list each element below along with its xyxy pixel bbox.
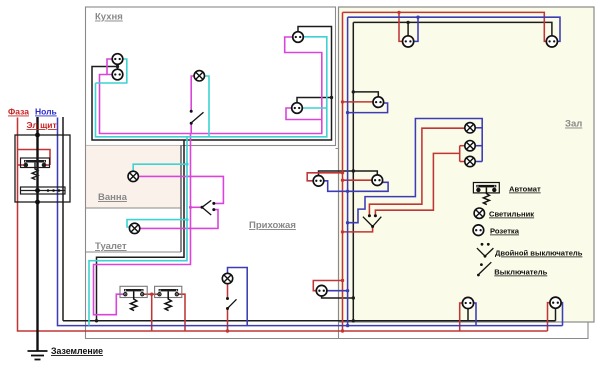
svg-text:Туалет: Туалет [95, 241, 127, 252]
wall zal left lower segment [338, 322, 340, 339]
svg-text:Эл щит: Эл щит [27, 120, 57, 130]
wire kitchen switch out [190, 124, 192, 133]
socket S5 [462, 297, 473, 308]
wire socket D red [343, 179, 373, 181]
wire P1-D blue link [324, 181, 389, 192]
junction red A [397, 11, 400, 14]
wire socket S5 blue [474, 303, 476, 326]
wire DS2 vertex return [343, 228, 373, 232]
legend breaker symbol [473, 183, 499, 205]
wire socket S6 red [548, 303, 550, 331]
junction corridor black bus [95, 319, 98, 322]
svg-text:Кухня: Кухня [95, 12, 123, 23]
junction red D [341, 179, 344, 182]
terminal dots [35, 188, 40, 193]
wire P3 stem [322, 296, 354, 298]
wall corridor (bath/toilet right) [180, 146, 182, 253]
wire socket S5 red [460, 303, 463, 331]
junction socket A stem [406, 21, 409, 24]
breaker AB1 [21, 158, 50, 180]
svg-text:Светильник: Светильник [489, 210, 534, 219]
wire DS1 vertex stub [191, 206, 201, 208]
wire panel loop top [18, 150, 51, 166]
wire socket S6 blue [561, 303, 562, 326]
wire breaker AB2 drop [151, 294, 153, 331]
socket P1 [313, 176, 324, 187]
legend lamp symbol [474, 208, 484, 218]
wire zal red riser [342, 12, 344, 331]
junction blue C [346, 111, 349, 114]
svg-text:Ванна: Ванна [98, 192, 128, 203]
wire socket S5 stem [467, 309, 469, 321]
junction red C [341, 100, 344, 103]
junction red breakers [150, 293, 153, 296]
wire socket A red [399, 12, 402, 41]
socket S6 [550, 297, 561, 308]
socket D [372, 175, 383, 186]
panel Эл щит box [15, 135, 70, 202]
wire panel breaker right stub [44, 164, 50, 166]
junction P3 black [352, 296, 355, 299]
lamp Z2 [465, 141, 475, 151]
socket C [373, 97, 384, 108]
ground [28, 351, 48, 360]
wire DS2 left pole to lamp1 [369, 128, 464, 214]
legend socket symbol [473, 225, 484, 236]
double switch DS1 [201, 200, 216, 215]
switch kitchen [190, 110, 204, 125]
wire socket C black [353, 92, 378, 97]
junction blue lamps [346, 221, 349, 224]
wire socket A stem [407, 22, 409, 35]
wire panel feed down [62, 117, 64, 321]
wire kitchen K1 elbow [96, 59, 127, 83]
junction blue P1D [346, 190, 349, 193]
wire zal blue riser [347, 17, 349, 325]
wire hall P1 to zal socket D [319, 171, 378, 176]
wire zal top bus [353, 22, 552, 35]
wire socket C blue [348, 103, 388, 113]
wire socket R2 cyan [302, 107, 327, 109]
wire corridor cyan riser [89, 137, 187, 326]
WIRES-RED [18, 12, 550, 331]
wire lamp3 stub [475, 161, 482, 163]
junction blue riser bus [346, 324, 349, 327]
wire corridor magenta riser [94, 134, 191, 315]
wire DS2 right pole to lamps23 [375, 153, 459, 214]
wire kitchen loop [92, 27, 332, 141]
panel main line [36, 117, 38, 351]
WIRES-MAGENTA [94, 37, 322, 315]
wire socket C red [343, 101, 374, 103]
svg-text:Двойной выключатель: Двойной выключатель [495, 249, 583, 258]
junction P1-D black [352, 169, 355, 172]
wire socket R2 magenta [286, 108, 322, 120]
lamp Z1 [465, 123, 475, 133]
wire phase riser [18, 118, 548, 332]
wire panel breaker left stub [18, 164, 27, 166]
socket A [403, 36, 414, 47]
socket R1 [293, 32, 304, 43]
wire kitchen K sockets bar [107, 59, 112, 75]
wire hall switch drop [227, 310, 229, 331]
junction R2 riser [330, 96, 333, 99]
junction magenta DS1 [189, 206, 192, 209]
wall Туалет bottom [86, 251, 182, 253]
room Зал fill [339, 7, 595, 322]
wire kitchen socket R2 stem [297, 98, 332, 103]
wire zal red top bus [343, 12, 547, 41]
junction panel top [35, 133, 40, 138]
legend double switch symbol [477, 243, 494, 258]
junction blue P3 [346, 289, 349, 292]
svg-text:Фаза: Фаза [8, 107, 29, 117]
wire breakers link [144, 293, 158, 295]
wire P1 loop [307, 173, 342, 181]
lamp Z3 [465, 156, 475, 166]
breaker AB3 [155, 286, 182, 310]
room Кухня [86, 7, 336, 146]
junction cyan toilet [185, 218, 188, 221]
wire socket A blue [414, 17, 418, 41]
wire socket S6 stem [555, 308, 557, 320]
svg-text:Заземление: Заземление [51, 346, 103, 356]
wire P3 blue [327, 290, 348, 292]
junction blue A [416, 16, 419, 19]
junction zal black riser bus [352, 319, 355, 322]
junction red hall switch bus [226, 329, 229, 332]
socket B [546, 36, 557, 47]
room Ванна fill [86, 146, 181, 209]
wire P3 loop [313, 281, 342, 291]
lamp hall [222, 273, 232, 283]
wire toilet lamp cyan [127, 220, 187, 227]
wire kitchen cyan loop [96, 37, 327, 137]
wall stub kitchen to hall [336, 148, 339, 150]
wire zal lamps neutral [348, 119, 483, 223]
wire toilet lamp magenta [140, 210, 218, 229]
svg-text:Ноль: Ноль [35, 107, 57, 117]
wire hall lamp blue [228, 268, 248, 326]
wall left outer [86, 146, 589, 339]
socket K1 [112, 54, 123, 65]
legend switch symbol [477, 262, 491, 276]
WIRES-CYAN [89, 37, 327, 326]
switch hall [226, 297, 237, 310]
wire bracket stub lamp2 [460, 145, 465, 147]
terminal strip [21, 187, 66, 194]
svg-text:Прихожая: Прихожая [249, 220, 296, 231]
wire bath lamp cyan [133, 164, 187, 171]
lamp bath [128, 171, 138, 181]
lamp toilet [129, 223, 139, 233]
WIRES-BLACK [63, 22, 556, 320]
junction cyan bath [185, 163, 188, 166]
junction K pair [116, 65, 119, 68]
wire bracket stub lamp3 [460, 161, 465, 163]
wire lamp1 stub [475, 127, 482, 129]
socket K2 [112, 69, 123, 80]
wire black bus bottom [63, 320, 556, 322]
wire lamp23 bracket [459, 146, 461, 162]
breaker AB2 [120, 286, 147, 310]
wire neutral riser [58, 118, 563, 326]
WIRES-BLUE [58, 17, 563, 325]
junction socket C black [352, 90, 355, 93]
svg-text:Автомат: Автомат [509, 185, 541, 194]
wire zal black riser [352, 22, 354, 320]
junction panel bottom [35, 200, 40, 205]
svg-text:Выключатель: Выключатель [494, 268, 547, 277]
svg-text:Зал: Зал [565, 119, 582, 130]
wire lamp2 stub [475, 145, 482, 147]
junction red DS2 [341, 230, 344, 233]
junction red P1 [341, 171, 344, 174]
wire zal blue top bus [348, 17, 560, 41]
socket R2 [292, 103, 303, 114]
wire kitchen lamp feed [191, 76, 194, 110]
wire bath lamp magenta [138, 176, 223, 203]
wire hall lamp feed [227, 284, 229, 298]
wire breaker AB3 out [178, 294, 185, 331]
double switch DS2 [363, 214, 381, 228]
wire kitchen magenta loop [100, 37, 322, 134]
junction red riser bus [341, 329, 344, 332]
junction red P3 [341, 279, 344, 282]
lamp kitchen [194, 71, 204, 81]
wall Ванна bottom [86, 207, 182, 209]
wire corridor black riser [97, 140, 185, 321]
wire kitchen lamp cyan [205, 76, 210, 137]
socket P3 [316, 285, 327, 296]
svg-text:Розетка: Розетка [490, 227, 520, 236]
